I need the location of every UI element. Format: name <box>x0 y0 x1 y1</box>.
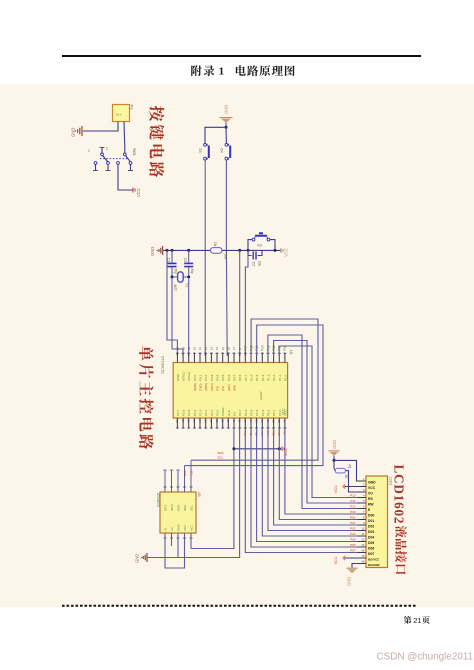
svg-text:P0.6: P0.6 <box>244 409 248 416</box>
svg-text:SDA: SDA <box>183 471 187 477</box>
LCD pin 15 BG/VCC <box>358 554 381 561</box>
svg-text:P0.1: P0.1 <box>272 409 276 416</box>
svg-text:D00: D00 <box>368 514 374 518</box>
U1 top pin 20 GND <box>176 346 180 381</box>
U1 bottom pin 25 P2.4 <box>192 409 197 428</box>
wire crystal link <box>172 276 189 278</box>
svg-text:P01: P01 <box>350 516 356 520</box>
svg-text:P2.1: P2.1 <box>210 409 214 416</box>
wire P1 pin1 to GND <box>83 122 118 132</box>
U1 top pin 18 XTAL2 <box>187 346 191 381</box>
wire K1 to U1 P3 pin <box>204 160 206 356</box>
svg-text:VCC: VCC <box>334 485 338 493</box>
U1 part name <box>161 356 165 374</box>
ground left of reset rail <box>150 246 163 256</box>
svg-text:D06: D06 <box>368 547 374 551</box>
net label P12 at LCD <box>350 505 356 509</box>
U1 bottom pin 29 PSEN <box>220 408 225 429</box>
svg-text:SCL: SCL <box>190 471 194 477</box>
svg-text:SW1: SW1 <box>132 148 136 156</box>
net label P07 at LCD <box>350 549 356 553</box>
svg-text:XTAL2: XTAL2 <box>187 371 191 381</box>
svg-text:P06: P06 <box>350 543 356 547</box>
wire rail to XTAL2 <box>167 250 177 356</box>
junction P00/VCC <box>278 447 281 450</box>
svg-text:P07: P07 <box>350 549 356 553</box>
U1 bottom pin 33 P0.6 <box>243 409 248 428</box>
svg-text:P05: P05 <box>350 538 356 542</box>
svg-text:GND: GND <box>135 554 140 563</box>
svg-text:AT24C02: AT24C02 <box>156 493 160 507</box>
U3 part name <box>156 493 160 507</box>
ground left of U3 <box>135 553 148 563</box>
svg-text:K2: K2 <box>220 148 224 152</box>
net label P01 <box>249 431 253 437</box>
U1 top pin 16 P3.6 <box>227 346 231 391</box>
LCD pin 10 D03 <box>358 527 375 534</box>
U1 top pin 8 P1.7 <box>244 345 248 381</box>
caption 单片主控电路 <box>139 346 154 449</box>
wire P1 bus bracket 5 (to LCD RS) <box>279 346 357 498</box>
LCD pin 9 D02 <box>358 521 375 528</box>
svg-text:35: 35 <box>254 420 258 424</box>
svg-text:17: 17 <box>232 346 236 350</box>
svg-text:11: 11 <box>198 347 202 350</box>
resistor R2 10K <box>211 242 228 261</box>
svg-text:P1.1: P1.1 <box>278 374 282 381</box>
LCD pin 16 BG/GND <box>358 560 380 567</box>
svg-text:GND: GND <box>150 247 155 256</box>
svg-text:P3.3: P3.3 <box>210 374 214 381</box>
svg-text:D03: D03 <box>368 530 374 534</box>
svg-text:25: 25 <box>192 420 196 424</box>
U1 top pin 7 P1.6 <box>249 345 253 381</box>
svg-text:12: 12 <box>204 346 208 350</box>
wire C1 branch to XTAL1 <box>172 277 183 356</box>
svg-text:VO: VO <box>368 492 373 496</box>
junction <box>238 249 241 252</box>
svg-text:D07: D07 <box>368 552 374 556</box>
U1 bottom pin 32 P0.7 <box>237 409 242 428</box>
svg-text:P3.5: P3.5 <box>221 374 225 381</box>
net label P06 <box>277 431 281 437</box>
svg-text:(T0): (T0) <box>216 386 220 391</box>
LCD pin 3 VO <box>358 488 374 495</box>
U1 top pin 14 P3.4 <box>215 346 219 391</box>
net label P06 at LCD <box>350 543 356 547</box>
node junction K1/K2 <box>225 126 228 129</box>
U1 top pin 10 P3.0 <box>193 346 197 391</box>
svg-text:GND: GND <box>176 524 180 532</box>
svg-text:D02: D02 <box>368 525 374 529</box>
resistor R1 2K <box>334 460 352 479</box>
LCD pin 1 GND <box>358 477 377 484</box>
junction <box>187 249 190 252</box>
LCD pin 7 D00 <box>358 510 375 517</box>
wire P07 to LCD D0 <box>285 429 358 514</box>
svg-text:LCD1602: LCD1602 <box>392 465 407 525</box>
svg-text:VCC: VCC <box>284 248 289 257</box>
wire GND node to LCD pin1 <box>334 460 366 481</box>
capacitor C1 30p <box>167 250 178 277</box>
svg-text:ALE/P: ALE/P <box>259 391 263 400</box>
svg-text:STC89C52: STC89C52 <box>161 356 165 374</box>
svg-text:INT1: INT1 <box>163 504 167 511</box>
U1 top pin 12 P3.2 <box>204 346 208 391</box>
power VCC at LCD pin15 <box>334 556 366 565</box>
wire U3 GND pin <box>177 533 179 558</box>
svg-text:P12: P12 <box>350 505 356 509</box>
U1 bottom pin 37 P0.2 <box>266 409 271 428</box>
capacitor C3 <box>248 250 263 266</box>
svg-text:(RXD): (RXD) <box>193 383 197 391</box>
title 附录1 电路原理图 <box>191 65 294 77</box>
svg-text:P3.6: P3.6 <box>227 374 231 381</box>
junction <box>247 249 250 252</box>
svg-text:21: 21 <box>413 616 421 625</box>
U1 internal VCC label <box>282 408 286 415</box>
svg-text:D04: D04 <box>368 536 374 540</box>
svg-text:29: 29 <box>220 420 224 424</box>
wire P01 to LCD D6 <box>251 429 358 547</box>
svg-text:26: 26 <box>187 420 191 424</box>
svg-text:15: 15 <box>221 346 225 350</box>
LCD pin 12 D05 <box>358 538 375 545</box>
U1 bottom pin 39 P0.0 <box>277 409 282 428</box>
net label P07 <box>283 431 287 437</box>
svg-text:(INT0): (INT0) <box>204 383 208 391</box>
svg-text:14: 14 <box>215 346 219 350</box>
svg-text:RST: RST <box>238 375 242 381</box>
U1 bottom pin 24 P2.3 <box>198 409 203 428</box>
svg-text:P1.5: P1.5 <box>255 374 259 381</box>
svg-text:VCC: VCC <box>334 556 338 564</box>
wire junction to K2 <box>225 127 227 143</box>
wire U3 X1-X2 loop <box>165 533 185 568</box>
svg-text:SDA: SDA <box>183 505 187 511</box>
wire U1 pin to U3 GND rail <box>148 429 240 558</box>
svg-text:VCC: VCC <box>368 486 376 490</box>
U1 top pin 17 P3.7 <box>232 346 236 391</box>
svg-text:40: 40 <box>283 420 287 424</box>
reset rail wire <box>163 249 281 251</box>
U1 bottom pin 22 P2.1 <box>209 409 214 428</box>
svg-text:GND: GND <box>368 481 376 485</box>
svg-text:D01: D01 <box>368 519 374 523</box>
U1 top pin 11 P3.1 <box>198 347 202 391</box>
svg-text:P2.3: P2.3 <box>199 409 203 416</box>
svg-text:P3.0: P3.0 <box>193 374 197 381</box>
svg-text:22: 22 <box>209 420 213 424</box>
svg-text:P0.5: P0.5 <box>249 409 253 416</box>
svg-text:VC1: VC1 <box>189 525 193 531</box>
wire U3 VCC pin <box>190 533 192 549</box>
schematic background <box>0 84 474 607</box>
U1 bottom pin 30 ALE <box>226 410 231 428</box>
svg-text:P14: P14 <box>261 345 265 351</box>
LCD pin 14 D07 <box>358 549 375 556</box>
svg-text:At-+: At-+ <box>116 113 122 117</box>
svg-text:12M: 12M <box>174 284 178 291</box>
U1 top pin 6 P1.5 <box>255 345 259 381</box>
svg-text:P10: P10 <box>350 494 356 498</box>
svg-text:U1: U1 <box>289 350 293 355</box>
svg-text:33: 33 <box>243 420 247 424</box>
U3 bottom pin GND <box>176 524 180 539</box>
svg-text:X2: X2 <box>170 527 174 531</box>
svg-text:P17: P17 <box>244 345 248 351</box>
U1 bottom pin 21 P2.0 <box>215 409 220 428</box>
U1 bottom pin 40 VCC <box>283 409 288 429</box>
svg-text:GND: GND <box>176 373 180 381</box>
svg-text:(TXD): (TXD) <box>199 383 203 391</box>
svg-text:10u: 10u <box>258 261 262 267</box>
connector P1 <box>113 105 135 122</box>
svg-text:13: 13 <box>210 346 214 350</box>
svg-text:23: 23 <box>204 420 208 424</box>
net label P00 <box>243 431 247 437</box>
U3 top pin SDA <box>183 466 187 511</box>
pushbutton K2 <box>220 143 230 160</box>
U3 top pin SDO <box>176 470 180 511</box>
svg-text:PSEN: PSEN <box>221 408 225 416</box>
U3 bottom pin X1 <box>163 527 167 538</box>
svg-text:P00: P00 <box>350 510 356 514</box>
svg-text:U3: U3 <box>197 492 201 497</box>
svg-text:P1.4: P1.4 <box>261 374 265 381</box>
U3 bottom pin VC1 <box>189 525 193 538</box>
svg-text:GND: GND <box>332 440 337 449</box>
svg-text:K3: K3 <box>258 244 262 248</box>
pushbutton K3 <box>248 233 275 250</box>
U1 bottom pin 23 P2.2 <box>204 409 209 428</box>
net labels SDA SCL on bus <box>218 451 224 459</box>
chip U3 AT24C02 <box>160 492 196 533</box>
net label P00 at LCD <box>350 510 356 514</box>
svg-text:38: 38 <box>271 420 275 424</box>
U1 bottom pin 34 P0.5 <box>249 409 254 428</box>
svg-text:RS: RS <box>368 497 373 501</box>
wire P05 to LCD D2 <box>274 429 358 525</box>
svg-text:37: 37 <box>266 420 270 424</box>
svg-text:ALE: ALE <box>227 410 231 416</box>
footer dashed rule <box>62 605 416 607</box>
svg-text:16: 16 <box>227 346 231 350</box>
U1 bottom pin 26 P2.5 <box>187 409 192 428</box>
caption 按键电路 <box>149 106 164 177</box>
caption LCD1602液晶接口 <box>392 465 407 575</box>
svg-text:X1: X1 <box>163 527 167 531</box>
U3 top pin INT1 <box>163 470 167 511</box>
power VCC label under U1 <box>282 447 288 457</box>
svg-text:27: 27 <box>181 420 185 424</box>
svg-text:P0.2: P0.2 <box>266 409 270 416</box>
wire LCD pin16 to GND <box>352 564 366 568</box>
LCD1602 connector J1 <box>366 476 388 568</box>
wire C2 branch to XTAL pin <box>188 277 190 356</box>
crystal Y1 12M <box>174 272 189 291</box>
svg-text:16: 16 <box>361 560 365 564</box>
svg-text:39: 39 <box>277 420 281 424</box>
svg-text:P03: P03 <box>350 527 356 531</box>
net label SDA above U3 <box>183 471 194 477</box>
U1 top pin 15 P3.5 <box>221 346 225 391</box>
svg-text:P3.2: P3.2 <box>204 374 208 381</box>
net label P02 <box>254 431 258 437</box>
svg-text:10: 10 <box>361 527 365 531</box>
svg-text:36: 36 <box>260 420 264 424</box>
svg-text:30p: 30p <box>190 269 194 275</box>
svg-text:SDA: SDA <box>218 451 224 455</box>
svg-text:15: 15 <box>361 554 365 558</box>
svg-text:1: 1 <box>88 149 90 153</box>
svg-text:P11: P11 <box>350 499 355 503</box>
svg-text:14: 14 <box>361 549 365 553</box>
svg-text:24: 24 <box>198 420 202 424</box>
svg-text:C1: C1 <box>167 258 171 262</box>
svg-text:SCL: SCL <box>218 456 224 460</box>
U3 top pin SCL <box>189 460 193 511</box>
svg-text:P2.7: P2.7 <box>176 409 180 416</box>
svg-text:P02: P02 <box>350 521 356 525</box>
power GND below LCD <box>347 568 358 586</box>
svg-text:BG/VCC: BG/VCC <box>368 558 380 562</box>
net label P01 at LCD <box>350 516 356 520</box>
svg-text:P1.0: P1.0 <box>283 374 287 381</box>
svg-text:10: 10 <box>193 346 197 350</box>
svg-text:30: 30 <box>226 420 230 424</box>
svg-text:20: 20 <box>176 346 180 350</box>
wire P02 to LCD D5 <box>257 429 358 542</box>
U1 top pin 13 P3.3 <box>210 346 214 391</box>
svg-text:P0.3: P0.3 <box>261 409 265 416</box>
svg-text:13: 13 <box>361 543 365 547</box>
wire K2 to U1 P3 pin <box>225 160 228 356</box>
svg-text:GND: GND <box>224 105 229 114</box>
pushbutton K1 <box>199 143 209 160</box>
svg-text:P1: P1 <box>130 105 135 111</box>
svg-text:1: 1 <box>219 65 225 77</box>
svg-text:P2.0: P2.0 <box>216 409 220 416</box>
top rule <box>62 55 421 57</box>
svg-text:VCC: VCC <box>282 408 286 415</box>
svg-text:P1.2: P1.2 <box>272 374 276 381</box>
switch SW1 <box>88 147 136 171</box>
svg-text:(WR): (WR) <box>227 384 231 391</box>
power VCC at LCD pin2 <box>334 484 366 493</box>
power GND above K1 K2 <box>220 105 233 126</box>
U1 bottom pin 27 P2.6 <box>181 409 186 428</box>
svg-text:21: 21 <box>215 420 219 424</box>
wire junction to K1 <box>205 127 226 143</box>
svg-text:INT0: INT0 <box>170 504 174 511</box>
U1 bottom pin 28 P2.7 <box>175 409 180 428</box>
svg-text:P3.7: P3.7 <box>233 374 237 381</box>
U1 bottom pin 36 P0.3 <box>260 409 265 428</box>
svg-text:VCC: VCC <box>136 188 141 197</box>
svg-text:28: 28 <box>175 420 179 424</box>
svg-text:P2.2: P2.2 <box>204 409 208 416</box>
U1 internal ALE label <box>259 391 263 400</box>
svg-text:P3.4: P3.4 <box>216 374 220 381</box>
wire P1 bus bracket 2 (to U3 SDA) <box>185 325 324 466</box>
U1 top pin 3 P1.2 <box>272 345 276 381</box>
net label P10 at LCD <box>350 494 356 498</box>
svg-text:SCL: SCL <box>189 505 193 511</box>
LCD pin 13 D06 <box>358 543 375 550</box>
svg-text:30p: 30p <box>174 269 178 275</box>
junction <box>166 249 169 252</box>
net label P03 <box>260 431 264 437</box>
svg-text:C2: C2 <box>184 258 188 262</box>
net label P11 at LCD <box>350 499 355 503</box>
svg-text:GND: GND <box>347 577 352 586</box>
U3 top pin INT0 <box>170 470 174 511</box>
wire P1 bus bracket 3 (to LCD E) <box>268 335 358 509</box>
svg-text:19: 19 <box>181 346 185 350</box>
LCD designator <box>389 477 393 485</box>
svg-text:CSDN @chungle2011: CSDN @chungle2011 <box>377 652 474 663</box>
svg-text:12: 12 <box>361 538 365 542</box>
svg-text:Y1: Y1 <box>185 283 189 287</box>
svg-text:(T1): (T1) <box>221 386 225 391</box>
U1 bottom pin 31 EA <box>232 411 237 429</box>
svg-text:XTAL1: XTAL1 <box>182 371 186 381</box>
U1 designator <box>289 350 293 355</box>
net label P05 at LCD <box>350 538 356 542</box>
svg-text:P2.4: P2.4 <box>193 409 197 416</box>
svg-text:10K: 10K <box>224 254 228 261</box>
LCD pin 4 RS <box>358 494 374 501</box>
wire R1 to LCD VO <box>346 471 366 492</box>
svg-text:(INT1): (INT1) <box>210 383 214 391</box>
svg-text:P1.7: P1.7 <box>244 374 248 381</box>
svg-text:P2.6: P2.6 <box>182 409 186 416</box>
svg-text:P1.6: P1.6 <box>249 374 253 381</box>
LCD pin 6 E <box>358 505 372 512</box>
junction GND node <box>333 459 336 462</box>
U1 bottom pin 35 P0.4 <box>254 409 259 428</box>
svg-text:2: 2 <box>106 147 108 151</box>
power VCC right of rail <box>281 248 289 257</box>
U1 top pin 5 P1.4 <box>261 345 265 381</box>
net label P03 at LCD <box>350 527 356 531</box>
wire P1 bus bracket 4 (to LCD RW) <box>274 341 358 504</box>
svg-text:P04: P04 <box>350 532 356 536</box>
ground (power port) left of P1 <box>71 126 83 137</box>
U1 top pin 4 P1.3 <box>266 345 270 381</box>
svg-text:R1: R1 <box>348 465 352 469</box>
U3 bottom pin X2 <box>170 527 174 538</box>
power GND above LCD <box>329 440 340 459</box>
svg-text:11: 11 <box>362 532 365 536</box>
svg-text:RW: RW <box>368 503 374 507</box>
page number 第 21 页 <box>404 616 430 625</box>
svg-text:P2.5: P2.5 <box>187 409 191 416</box>
power VCC under SW1 <box>133 188 141 198</box>
svg-text:GND: GND <box>71 128 76 137</box>
wire P03 to LCD D4 <box>262 429 357 536</box>
LCD pin 8 D01 <box>358 516 375 523</box>
svg-text:P0.7: P0.7 <box>238 409 242 416</box>
capacitor C2 30p <box>184 250 195 277</box>
U1 top pin 1 P1.0 <box>283 345 287 381</box>
wire P00 to LCD D7 <box>245 429 357 553</box>
U3 bottom pin VC2 <box>183 525 187 538</box>
svg-text:18: 18 <box>187 346 191 350</box>
junction VCC tap <box>232 447 235 450</box>
junction <box>171 249 174 252</box>
